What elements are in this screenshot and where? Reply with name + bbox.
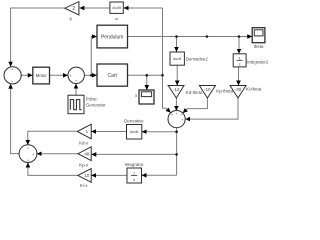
- svg-text:Motor: Motor: [36, 73, 48, 78]
- svg-text:w: w: [115, 16, 118, 21]
- svg-text:Ki-x: Ki-x: [80, 183, 88, 188]
- svg-text:-12: -12: [173, 87, 180, 92]
- svg-text:K: K: [70, 17, 73, 22]
- svg-text:Kd-x: Kd-x: [79, 140, 89, 145]
- svg-text:2: 2: [72, 6, 75, 12]
- svg-text:1: 1: [239, 57, 241, 61]
- svg-text:s: s: [239, 63, 241, 67]
- svg-text:-10: -10: [204, 87, 211, 92]
- svg-text:Kp-x: Kp-x: [79, 163, 89, 168]
- svg-text:Integrator: Integrator: [125, 162, 144, 167]
- svg-text:Ki-theta: Ki-theta: [246, 87, 262, 92]
- svg-text:Integrator2: Integrator2: [247, 59, 268, 64]
- svg-text:48: 48: [84, 151, 89, 156]
- svg-text:Kd-theta: Kd-theta: [186, 90, 203, 95]
- svg-text:Pulse: Pulse: [86, 96, 98, 101]
- svg-text:Kp-theta: Kp-theta: [216, 88, 233, 93]
- svg-text:theta: theta: [254, 44, 264, 49]
- svg-text:du/dt: du/dt: [112, 6, 121, 10]
- svg-text:Derivative2: Derivative2: [186, 56, 209, 61]
- svg-text:Cart: Cart: [107, 73, 117, 79]
- svg-text:s: s: [133, 178, 135, 182]
- svg-text:du/dt: du/dt: [130, 130, 139, 134]
- svg-text:Generator: Generator: [86, 103, 106, 108]
- svg-text:Derivative: Derivative: [124, 118, 144, 123]
- svg-text:du/dt: du/dt: [173, 57, 182, 61]
- svg-text:10: 10: [84, 173, 89, 178]
- svg-text:1: 1: [133, 172, 135, 176]
- svg-text:x: x: [135, 93, 138, 98]
- svg-text:Pendulum: Pendulum: [101, 34, 124, 40]
- svg-text:-30: -30: [235, 87, 242, 92]
